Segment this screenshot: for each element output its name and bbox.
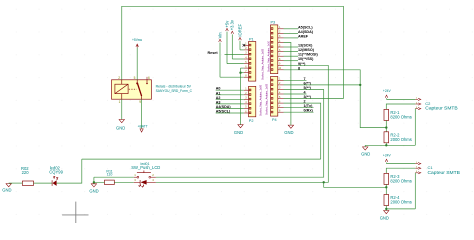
svg-text:C2: C2 bbox=[425, 101, 431, 106]
svg-text:11(**/MOSI): 11(**/MOSI) bbox=[298, 53, 318, 57]
svg-text:IOREF: IOREF bbox=[237, 23, 242, 36]
wire relay to +BATT bbox=[141, 99, 143, 128]
power +5v bbox=[224, 20, 244, 64]
svg-text:P1: P1 bbox=[249, 37, 254, 41]
ground sensor1 bbox=[361, 145, 370, 156]
svg-text:+5v: +5v bbox=[224, 20, 229, 28]
P4 field text columns bbox=[265, 83, 268, 115]
wire C1 pin3 riser bbox=[414, 173, 416, 209]
wire relay to GND bbox=[121, 99, 123, 119]
junction led row riser bbox=[323, 181, 325, 183]
relay value text bbox=[156, 84, 193, 93]
resistor R2-1 bbox=[384, 109, 412, 120]
relay K? box bbox=[112, 80, 152, 99]
ground under P4 bbox=[284, 125, 293, 135]
wire led row to net 9** vertical bbox=[156, 65, 328, 182]
svg-text:Socket_Strip_Arduino_1x06: Socket_Strip_Arduino_1x06 bbox=[259, 84, 262, 116]
connector P4 body bbox=[271, 77, 278, 123]
svg-text:Capteur SMTB: Capteur SMTB bbox=[428, 170, 460, 176]
svg-text:13(SCK): 13(SCK) bbox=[298, 44, 313, 48]
connector C1 bbox=[415, 162, 460, 176]
svg-text:A4(SDA): A4(SDA) bbox=[298, 30, 314, 34]
relay coil bbox=[115, 84, 128, 93]
svg-text:2: 2 bbox=[118, 76, 120, 80]
svg-text:SW_Push_LCD: SW_Push_LCD bbox=[131, 165, 160, 170]
wire R2-4 bottom row bbox=[385, 206, 387, 211]
svg-text:Socket_Strip_Arduino_1x08: Socket_Strip_Arduino_1x08 bbox=[265, 83, 268, 115]
wire net 2 bbox=[284, 102, 307, 104]
svg-text:Vin: Vin bbox=[217, 32, 222, 39]
svg-text:P2: P2 bbox=[249, 119, 254, 123]
P2 field text columns bbox=[259, 84, 262, 116]
svg-text:CQY99: CQY99 bbox=[49, 169, 63, 174]
wire P3 gnd pin4 drop bbox=[284, 43, 291, 126]
svg-text:2000 Ohms: 2000 Ohms bbox=[390, 200, 411, 205]
wire C2 pin3 riser bbox=[414, 109, 416, 146]
switch led01 SW_Push_LCD bbox=[131, 162, 160, 187]
power +5Vsw bbox=[132, 38, 143, 48]
svg-text:P3: P3 bbox=[271, 21, 276, 25]
power IOREF bbox=[237, 23, 244, 49]
resistor R2-2 bbox=[384, 132, 412, 143]
power +24V sensor1 bbox=[383, 89, 392, 99]
wire P1 gnd pins bbox=[241, 68, 244, 125]
P3 field text columns bbox=[267, 40, 270, 72]
resistor R2-4 bbox=[384, 195, 412, 206]
relay mechanical link (dashed) bbox=[129, 88, 137, 90]
wire net 3** bbox=[284, 98, 344, 100]
wire row A: GND0 - R02 - led02 - up to rail bbox=[9, 182, 23, 184]
power +BATT bbox=[138, 124, 148, 132]
junction sensor2 mid bbox=[385, 186, 387, 188]
wire C2 pin2 to divider top bbox=[386, 104, 415, 109]
wire R2-1 to mid node bbox=[385, 120, 387, 131]
no-connect P1 pin1 bbox=[243, 44, 246, 47]
connector C2 bbox=[415, 98, 457, 112]
ground relay bbox=[116, 120, 125, 131]
svg-text:SANYOU_SRD_Form_C: SANYOU_SRD_Form_C bbox=[156, 89, 193, 93]
wire relay coil to top rail and across to relay drop bbox=[122, 6, 344, 98]
svg-text:+24V: +24V bbox=[383, 153, 392, 157]
svg-text:+24V: +24V bbox=[383, 89, 392, 93]
labels A0-A5 with wires bbox=[216, 87, 244, 114]
resistor R11 bbox=[105, 170, 115, 185]
power +3.3v bbox=[230, 19, 244, 59]
ground under P2 bbox=[234, 125, 243, 135]
wire sensor2 mid riser bbox=[324, 182, 387, 187]
wire net 8 to sensor1 riser bbox=[284, 70, 387, 128]
P4 pin numbers bbox=[279, 78, 281, 113]
svg-text:Capteur SMTB: Capteur SMTB bbox=[425, 106, 457, 112]
junction GND3 bbox=[93, 181, 95, 183]
svg-text:P4: P4 bbox=[272, 118, 277, 122]
svg-text:Socket_Strip_Arduino_1x08: Socket_Strip_Arduino_1x08 bbox=[261, 48, 264, 80]
P1 pin numbers bbox=[245, 43, 247, 78]
wire R2-2 bottom row bbox=[385, 143, 387, 146]
junction sensor1 mid bbox=[385, 126, 387, 128]
wire net 6** to sensor1 riser bbox=[284, 84, 361, 86]
resistor R02 bbox=[21, 166, 34, 185]
junction P1 gnd bbox=[239, 72, 241, 74]
P1 pins bbox=[244, 45, 249, 77]
svg-text:12(MISO): 12(MISO) bbox=[298, 48, 315, 52]
P1 field text columns bbox=[261, 48, 264, 80]
svg-text:220: 220 bbox=[22, 170, 30, 175]
svg-text:GND: GND bbox=[234, 130, 243, 135]
resistor R2-3 bbox=[384, 173, 412, 184]
wire C1 pin2 to divider top bbox=[386, 168, 415, 173]
junction net 6** / net 8 bbox=[359, 84, 361, 86]
svg-text:GND: GND bbox=[380, 215, 389, 220]
svg-text:GND: GND bbox=[116, 126, 125, 131]
junction sensor2 bottom bbox=[385, 208, 387, 210]
svg-text:Reset: Reset bbox=[208, 51, 219, 55]
power Vin bbox=[217, 32, 244, 77]
svg-text:1: 1 bbox=[119, 100, 121, 104]
wire R2-3 to mid node bbox=[385, 184, 387, 194]
svg-text:C1: C1 bbox=[428, 165, 434, 170]
wire rail from LED02 corner to vertical of net 2 bbox=[82, 158, 321, 160]
svg-text:5: 5 bbox=[134, 76, 136, 80]
relay pin numbers bbox=[118, 76, 150, 104]
connector P1 body bbox=[249, 37, 256, 81]
wire +5Vsw to relay bbox=[136, 48, 138, 80]
connector P3 body bbox=[271, 21, 278, 74]
svg-text:8200 Ohms: 8200 Ohms bbox=[390, 178, 411, 183]
ground GND0 bbox=[2, 184, 11, 193]
P4 pins bbox=[278, 80, 284, 112]
svg-text:2000 Ohms: 2000 Ohms bbox=[390, 137, 411, 142]
wire net 2 vertical bbox=[307, 103, 321, 159]
svg-text:+5Vsw: +5Vsw bbox=[132, 38, 143, 42]
wire GND3 - R11 - led01 row bbox=[94, 177, 105, 182]
label Reset bbox=[208, 51, 244, 55]
svg-text:GND: GND bbox=[284, 130, 293, 135]
wire +24V to C2 pin1 bbox=[387, 98, 416, 100]
power +24V sensor2 bbox=[383, 153, 392, 163]
wire net 9** bbox=[284, 64, 329, 66]
P4 right labels and wires bbox=[284, 77, 314, 113]
connector P2 body bbox=[249, 86, 256, 123]
svg-text:9: 9 bbox=[139, 100, 141, 104]
ground GND3 bbox=[89, 184, 98, 194]
svg-text:A5(SCL): A5(SCL) bbox=[298, 25, 313, 29]
P2 pins bbox=[244, 90, 249, 113]
LED led02 CQY99 bbox=[49, 165, 63, 186]
crosshair marker bbox=[62, 202, 88, 223]
P3 pins bbox=[278, 29, 284, 70]
wire net 5** bbox=[284, 88, 324, 90]
svg-text:AREF: AREF bbox=[298, 34, 309, 38]
svg-text:GND: GND bbox=[2, 188, 11, 193]
ground sensor2 bbox=[380, 211, 389, 221]
P3 right labels and wires bbox=[284, 25, 319, 70]
P3 pin numbers bbox=[278, 26, 281, 70]
svg-text:Socket_Strip_Arduino_1x10: Socket_Strip_Arduino_1x10 bbox=[267, 40, 270, 72]
svg-text:+BATT: +BATT bbox=[138, 124, 148, 128]
svg-text:6: 6 bbox=[148, 76, 150, 80]
svg-text:10(**/SS): 10(**/SS) bbox=[298, 57, 314, 61]
svg-text:GND: GND bbox=[361, 152, 370, 157]
svg-text:Relais - distributeur 5V: Relais - distributeur 5V bbox=[156, 84, 192, 88]
wire +24V to C1 pin1 bbox=[387, 163, 416, 165]
P2 pin numbers bbox=[245, 88, 247, 114]
relay switch blade bbox=[122, 77, 148, 99]
junction sensor1 bottom bbox=[385, 144, 387, 146]
svg-text:110: 110 bbox=[107, 173, 113, 177]
svg-text:+3.3v: +3.3v bbox=[230, 19, 235, 30]
svg-text:GND: GND bbox=[89, 188, 98, 193]
wire switch row to net 5** vertical bbox=[156, 89, 324, 177]
svg-text:8200 Ohms: 8200 Ohms bbox=[390, 114, 411, 119]
